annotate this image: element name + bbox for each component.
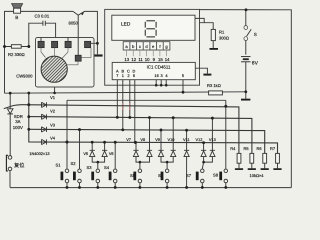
svg-text:S5: S5 [130,173,136,178]
svg-text:12: 12 [131,57,136,62]
svg-text:V9: V9 [155,137,160,142]
svg-text:R4: R4 [230,146,236,151]
svg-text:16: 16 [154,73,158,78]
svg-text:13: 13 [124,57,129,62]
svg-text:2: 2 [127,73,129,78]
svg-text:V12: V12 [196,137,203,142]
svg-text:V6: V6 [109,151,114,156]
svg-text:复位: 复位 [14,162,24,169]
svg-text:V7: V7 [126,137,131,142]
svg-text:100V: 100V [13,125,23,130]
svg-text:14: 14 [165,57,170,62]
svg-text:R3 1kΩ: R3 1kΩ [207,83,221,88]
svg-text:10kΩ×4: 10kΩ×4 [250,173,265,178]
svg-text:S6: S6 [158,173,164,178]
svg-text:1N4002×13: 1N4002×13 [29,151,49,156]
svg-text:15: 15 [158,57,163,62]
svg-text:S4: S4 [104,165,110,170]
svg-text:IC1 CD4511: IC1 CD4511 [147,65,171,70]
svg-text:c: c [139,44,141,49]
svg-text:5: 5 [182,73,184,78]
svg-text:11: 11 [138,57,143,62]
svg-text:S2: S2 [70,161,76,166]
svg-text:V3: V3 [50,123,56,128]
svg-text:7: 7 [116,73,118,78]
svg-text:V8: V8 [140,137,145,142]
svg-text:V13: V13 [209,137,216,142]
svg-text:3A: 3A [15,119,20,124]
svg-text:S7: S7 [186,173,192,178]
svg-text:R5: R5 [243,146,249,151]
svg-text:6V: 6V [252,60,259,66]
svg-text:S1: S1 [55,163,61,168]
svg-text:S3: S3 [86,165,92,170]
svg-text:CW9300: CW9300 [16,74,33,79]
svg-text:V5: V5 [83,151,88,156]
svg-text:R7: R7 [270,146,276,151]
svg-text:S: S [254,32,257,37]
svg-text:1: 1 [122,73,124,78]
svg-text:R6: R6 [256,146,262,151]
svg-text:C3 0.01: C3 0.01 [35,14,50,19]
svg-text:8050: 8050 [69,21,79,26]
svg-text:R1: R1 [219,29,225,34]
svg-text:V1: V1 [50,95,56,100]
svg-text:6: 6 [133,73,135,78]
svg-text:3: 3 [161,73,163,78]
svg-text:B: B [15,15,18,20]
svg-text:R2 330Ω: R2 330Ω [8,52,25,57]
svg-text:300Ω: 300Ω [219,35,229,40]
svg-text:S8: S8 [213,173,219,178]
svg-text:10: 10 [145,57,150,62]
svg-text:V2: V2 [50,108,56,113]
svg-text:V4: V4 [50,135,56,140]
svg-text:LED: LED [121,21,131,27]
svg-text:V10: V10 [168,137,176,142]
svg-text:V11: V11 [183,137,190,142]
